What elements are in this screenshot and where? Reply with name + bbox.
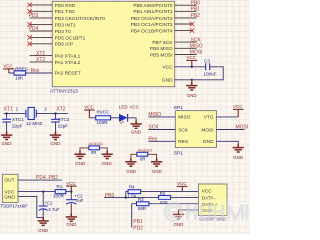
resistor R4 body	[128, 190, 141, 194]
svg-text:PB3 OC1A/PCINT3: PB3 OC1A/PCINT3	[131, 22, 173, 28]
svg-text:GND: GND	[2, 141, 13, 146]
no-ERC X on PB4	[190, 28, 194, 32]
wire crystal left XT1	[4, 113, 26, 115]
svg-text:PD4_PB2: PD4_PB2	[36, 175, 58, 181]
wire AGndGnd1 right	[100, 148, 108, 154]
svg-text:PD5 OC1B/T1: PD5 OC1B/T1	[55, 35, 86, 41]
svg-text:GND: GND	[102, 161, 113, 166]
ground symbol (AGndGnd2 left)	[125, 158, 136, 166]
svg-text:AGdGd1: AGdGd1	[89, 142, 104, 146]
svg-text:GND: GND	[4, 195, 15, 201]
svg-text:VCC: VCC	[66, 181, 76, 186]
svg-text:VTG: VTG	[204, 115, 214, 121]
wire XTC2 to gnd	[55, 122, 57, 134]
IR receiver pin names	[4, 178, 15, 201]
svg-text:PD1 TXD: PD1 TXD	[55, 9, 76, 15]
junction C1	[42, 190, 44, 192]
power port VCC (IC supply)	[186, 60, 197, 66]
svg-text:SP1: SP1	[174, 151, 183, 157]
no-ERC X on PD5	[27, 35, 31, 39]
IC U1 ATTINY2313 body	[52, 1, 174, 86]
svg-text:RES: RES	[178, 139, 188, 145]
USB connector pin names	[202, 188, 218, 214]
IR receiver IR1 body	[2, 174, 18, 202]
pin PB5 wire	[175, 54, 197, 56]
pin PD6 stub	[30, 43, 53, 45]
capacitor C2 plates (polarized)	[66, 200, 76, 204]
no-ERC X on PD1	[27, 9, 31, 13]
wire RVCC to LED	[111, 117, 120, 119]
wire AGndGnd1 left	[80, 148, 89, 154]
wire VCC pin to C3	[175, 66, 206, 68]
svg-text:RRES: RRES	[15, 66, 28, 71]
svg-text:RVCC: RVCC	[97, 110, 111, 115]
ground symbol (C2)	[66, 213, 77, 221]
svg-text:VCC: VCC	[202, 188, 213, 194]
svg-text:C3: C3	[204, 59, 210, 64]
capacitor XTC2 plates	[51, 119, 60, 122]
wire C3 to GND rail	[175, 67, 224, 80]
wire SP1 RES	[148, 140, 175, 142]
svg-text:PD0 RXD: PD0 RXD	[55, 3, 76, 9]
svg-text:GND: GND	[187, 93, 198, 98]
svg-text:PB5 MOSI: PB5 MOSI	[150, 52, 173, 58]
wire crystal right XT2	[36, 113, 68, 115]
ground symbol (AGndGnd2 right)	[151, 158, 162, 166]
watermark logo	[165, 203, 247, 220]
resistor RVCC body	[96, 116, 111, 120]
wire XTC2 drop	[55, 114, 57, 119]
svg-text:SCK: SCK	[191, 37, 202, 43]
svg-text:PB0: PB0	[105, 193, 115, 199]
power port VCC (LED)	[84, 110, 94, 118]
svg-text:PD6 ICP: PD6 ICP	[55, 42, 74, 48]
svg-text:GND: GND	[50, 141, 61, 146]
svg-text:VCC: VCC	[177, 181, 187, 186]
svg-text:VCC: VCC	[3, 64, 13, 69]
pin PD3 stub	[30, 23, 53, 25]
svg-text:PB2: PB2	[191, 13, 201, 19]
capacitor XTC1 plates	[2, 119, 11, 122]
svg-text:68R: 68R	[138, 206, 146, 211]
svg-text:0R: 0R	[140, 156, 146, 161]
svg-text:LED: LED	[119, 105, 129, 110]
svg-text:MOSI: MOSI	[201, 127, 213, 133]
svg-text:GND: GND	[75, 161, 86, 166]
svg-text:0uF: 0uF	[76, 198, 84, 203]
svg-text:PD3 INT1: PD3 INT1	[55, 22, 76, 28]
no-ERC X on PD3	[27, 22, 31, 26]
pin PD5 stub	[30, 36, 53, 38]
wire R3 to USB D+	[149, 203, 199, 205]
svg-text:PB4 OC1B/PCINT4: PB4 OC1B/PCINT4	[131, 29, 173, 35]
svg-text:VCC: VCC	[130, 105, 140, 110]
svg-text:MISO: MISO	[148, 112, 161, 118]
junction C2	[70, 190, 72, 192]
svg-text:R1: R1	[57, 184, 63, 189]
power port VCC (TSOP)	[66, 186, 76, 192]
pin PB4 stub	[175, 30, 193, 32]
svg-text:PD4 T0: PD4 T0	[55, 29, 72, 35]
svg-text:R4: R4	[129, 184, 135, 189]
svg-text:GND: GND	[203, 139, 214, 145]
IC U1 left pin names	[55, 3, 106, 77]
svg-text:TSOP17xx90°: TSOP17xx90°	[0, 204, 28, 209]
pin PD4 wire	[30, 30, 53, 32]
svg-text:PB7 SCK: PB7 SCK	[152, 40, 173, 46]
svg-text:4.7uF: 4.7uF	[48, 207, 60, 212]
wire USB GND	[179, 210, 199, 214]
svg-text:PB6 MISO: PB6 MISO	[150, 46, 173, 52]
svg-text:VCC: VCC	[84, 105, 94, 110]
svg-text:XTC2: XTC2	[58, 117, 70, 122]
svg-text:R2: R2	[160, 191, 166, 196]
wire GND drop	[191, 80, 193, 85]
svg-text:GND: GND	[173, 222, 184, 227]
wire SP1 GND	[216, 141, 238, 146]
svg-text:MISO: MISO	[178, 115, 191, 121]
wire VCC to USB	[141, 191, 199, 193]
svg-text:PB1 AIN1/PCINT1: PB1 AIN1/PCINT1	[133, 9, 173, 15]
wire gnd stem (C1)	[42, 217, 44, 220]
wire SP1 MOSI	[216, 129, 244, 131]
pin PB2 wire	[175, 17, 197, 19]
svg-text:VCC: VCC	[186, 55, 196, 60]
svg-text:Res: Res	[31, 68, 40, 74]
pin PA1 wire	[30, 61, 53, 63]
pin PB7 wire	[175, 41, 197, 43]
ground symbol (SP1)	[233, 144, 244, 152]
connector SP1 pin names	[178, 115, 191, 145]
svg-text:SCK: SCK	[178, 127, 189, 133]
capacitor C1 plates (polarized)	[39, 206, 48, 210]
svg-text:10K: 10K	[15, 76, 24, 81]
resistor RRES body	[14, 71, 26, 75]
wire PB0 / USB D-	[104, 197, 159, 199]
svg-text:PB0: PB0	[191, 0, 201, 6]
wire AGndGnd2 left	[131, 154, 137, 161]
ground symbol (USB)	[173, 211, 184, 219]
pin PA0 wire	[30, 55, 53, 57]
svg-text:PD2: PD2	[133, 225, 143, 231]
ground symbol (IC)	[186, 82, 197, 90]
wire TSOP VCC to R1	[18, 191, 55, 193]
junction VCC	[191, 66, 193, 68]
svg-text:22pF: 22pF	[12, 124, 23, 129]
svg-text:GND: GND	[233, 155, 244, 160]
svg-text:GND: GND	[152, 169, 163, 174]
ground symbol (XTC2)	[50, 132, 61, 140]
IC U1 right pin names	[131, 3, 174, 84]
wire XTC1 drop	[6, 114, 8, 119]
wire reset net	[9, 72, 53, 74]
resistor R2 body	[159, 196, 171, 200]
svg-text:0R: 0R	[91, 150, 97, 155]
junction XTC2	[54, 112, 56, 114]
svg-text:GND: GND	[38, 228, 49, 233]
capacitor C3 plates	[206, 63, 210, 70]
svg-text:22pF: 22pF	[58, 124, 69, 129]
pin PB3 stub	[175, 23, 193, 25]
pin PD1 stub	[30, 10, 53, 12]
svg-text:12 MHZ: 12 MHZ	[26, 121, 43, 126]
wire TSOP OUT	[18, 179, 62, 181]
svg-text:SCK: SCK	[148, 125, 159, 131]
wire SP1 SCK	[148, 129, 175, 131]
wire R1 to VCC node	[66, 191, 72, 193]
svg-text:PB1: PB1	[191, 7, 201, 13]
svg-text:GND: GND	[131, 129, 142, 134]
svg-text:GND: GND	[162, 78, 173, 84]
svg-text:PB0 AIN0/PCINT0: PB0 AIN0/PCINT0	[133, 3, 173, 9]
svg-text:XT1: XT1	[4, 107, 13, 113]
pin PB0 wire	[175, 4, 197, 6]
svg-text:PA2 RESET: PA2 RESET	[55, 71, 81, 77]
svg-text:MOSI: MOSI	[236, 125, 249, 131]
wire R4 elbow	[126, 192, 128, 198]
wire R2 to USB D-	[171, 197, 199, 199]
pin PD2 wire	[30, 17, 53, 19]
svg-text:PD4: PD4	[29, 26, 39, 32]
resistor AGndGnd1 body	[89, 146, 100, 150]
pin PB6 wire	[175, 47, 197, 49]
svg-text:OUT: OUT	[4, 178, 14, 184]
ground symbol (AGndGnd1 right)	[102, 151, 113, 159]
ground symbol (LED)	[131, 120, 142, 128]
svg-text:PB1: PB1	[133, 219, 143, 225]
svg-text:SP1: SP1	[174, 105, 183, 111]
ground symbol (AGndGnd1 left)	[74, 151, 85, 159]
power port VCC (reset pullup)	[3, 69, 14, 73]
junction GND	[191, 79, 193, 81]
wire C1 drop	[42, 192, 44, 206]
resistor AGndGnd2 body	[137, 152, 148, 156]
no-ERC X on PD6	[27, 42, 31, 46]
pin PB1 wire	[175, 10, 197, 12]
junction R4	[125, 196, 127, 198]
svg-text:VCC: VCC	[233, 104, 243, 109]
svg-text:XT2: XT2	[56, 107, 65, 113]
no-ERC X on PD0	[27, 3, 31, 7]
svg-text:PA1 XTAIL2: PA1 XTAIL2	[55, 60, 81, 66]
svg-text:PD2 CKOUT/XCK/INT0: PD2 CKOUT/XCK/INT0	[55, 16, 106, 22]
svg-text:PB2 OC0A/PCINT2: PB2 OC0A/PCINT2	[131, 16, 173, 22]
resistor R1 body	[55, 190, 66, 194]
junction XTC1	[5, 112, 7, 114]
wire TSOP GND to C1 bottom	[18, 196, 43, 217]
wire LED cathode	[128, 118, 137, 123]
svg-text:100R: 100R	[53, 193, 65, 198]
power port VCC (USB)	[177, 186, 187, 191]
wire VCC to RVCC	[89, 117, 95, 119]
pin PD0 stub	[30, 4, 53, 6]
svg-text:R3: R3	[138, 197, 144, 202]
svg-text:PD2: PD2	[29, 13, 39, 19]
no-ERC X on PB3	[190, 22, 194, 26]
watermark band	[152, 198, 250, 222]
wire C2 drop	[70, 192, 72, 200]
svg-text:GND: GND	[66, 222, 77, 227]
svg-text:+C1: +C1	[44, 200, 53, 205]
ground symbol (C1)	[38, 217, 49, 225]
resistor R3 body	[137, 202, 149, 206]
wire D+ vertical PB1/PD2	[132, 204, 137, 228]
wire SP1 VTG to VCC	[216, 116, 238, 118]
svg-text:VCC: VCC	[162, 65, 173, 71]
wire SP1 MISO	[148, 116, 175, 118]
svg-text:XT2: XT2	[36, 57, 45, 63]
wire XTC1 to gnd	[6, 122, 8, 134]
svg-text:100R: 100R	[97, 120, 109, 125]
svg-text:XT1: XT1	[36, 51, 45, 57]
svg-text:PA0 XTAIL1: PA0 XTAIL1	[55, 54, 81, 60]
svg-text:ATTINY2313: ATTINY2313	[50, 88, 78, 94]
power port VCC (SP1)	[233, 109, 243, 117]
svg-text:GND: GND	[126, 169, 137, 174]
crystal XTAL body 12 MHZ	[26, 107, 36, 119]
USB connector J1 body	[198, 184, 227, 216]
svg-text:1.5K: 1.5K	[128, 194, 137, 199]
connector SP1 body	[175, 111, 216, 148]
svg-text:MISO: MISO	[190, 44, 203, 50]
svg-text:XTC1: XTC1	[12, 117, 24, 122]
wire C2 to gnd	[70, 203, 72, 216]
diode LED symbol	[119, 114, 128, 124]
wire AGndGnd2 right	[148, 154, 157, 161]
svg-text:100nF: 100nF	[203, 71, 216, 76]
ground symbol (XTC1)	[1, 132, 12, 140]
svg-text:Res: Res	[148, 137, 157, 143]
